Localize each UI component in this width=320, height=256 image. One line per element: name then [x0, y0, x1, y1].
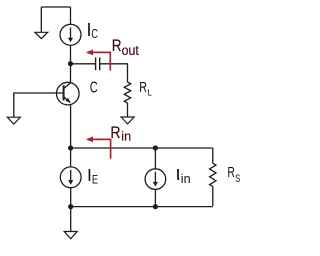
label RL [139, 79, 152, 98]
wire RS top [212, 148, 214, 163]
svg-text:R: R [139, 79, 147, 96]
label iin [176, 163, 191, 186]
ground RL [121, 117, 134, 124]
current source IE [60, 167, 81, 188]
node D bottom left [68, 204, 73, 209]
node E iin bottom [153, 204, 158, 209]
wire RL to ground [127, 103, 129, 117]
svg-text:in: in [121, 130, 131, 144]
current source IC [60, 24, 81, 45]
svg-text:C: C [90, 80, 98, 97]
resistor RS [210, 163, 216, 186]
label IE [87, 165, 98, 186]
transistor Q1 [57, 82, 80, 105]
svg-text:out: out [122, 43, 139, 58]
wire ground stub top-left [40, 7, 42, 32]
svg-text:R: R [112, 36, 122, 55]
wire iin bottom [154, 189, 156, 206]
svg-text:S: S [235, 173, 240, 185]
wire iin top [154, 148, 156, 169]
svg-text:C: C [91, 27, 98, 41]
wire bottom row horizontal [71, 206, 213, 208]
wire collector node to transistor [70, 64, 72, 83]
Rout measure arrow [88, 52, 110, 70]
wire base to ground [14, 93, 64, 117]
label Rin [110, 124, 131, 144]
svg-text:R: R [110, 124, 120, 142]
label RS [227, 165, 240, 185]
label IC [87, 20, 99, 41]
ground base [7, 117, 20, 124]
label Rout [112, 36, 139, 58]
wire IE to bottom node [70, 188, 72, 207]
current source iin [145, 169, 166, 190]
node A collector [68, 61, 73, 66]
wire collector node to capacitor [71, 63, 96, 65]
wire emitter down to row [70, 105, 72, 167]
resistor RL [124, 82, 130, 103]
svg-text:L: L [148, 87, 152, 98]
wire emitter row horizontal [71, 147, 213, 149]
wire bottom ground stub [70, 207, 72, 232]
Rin measure arrow [88, 139, 111, 158]
svg-text:R: R [227, 165, 235, 181]
node B emitter row [68, 145, 73, 150]
node C iin top [153, 145, 158, 150]
wire RS bottom [212, 187, 214, 206]
capacitor C [96, 57, 100, 70]
ground top-left [35, 32, 48, 38]
wire Ic source to collector node [70, 45, 72, 63]
wire top horizontal [41, 6, 70, 8]
svg-text:in: in [181, 171, 191, 186]
ground bottom [64, 232, 77, 239]
wire top into Ic source [70, 7, 72, 24]
wire capacitor to RL corner [100, 64, 127, 82]
svg-text:E: E [92, 172, 98, 186]
svg-text:ι: ι [176, 163, 180, 185]
